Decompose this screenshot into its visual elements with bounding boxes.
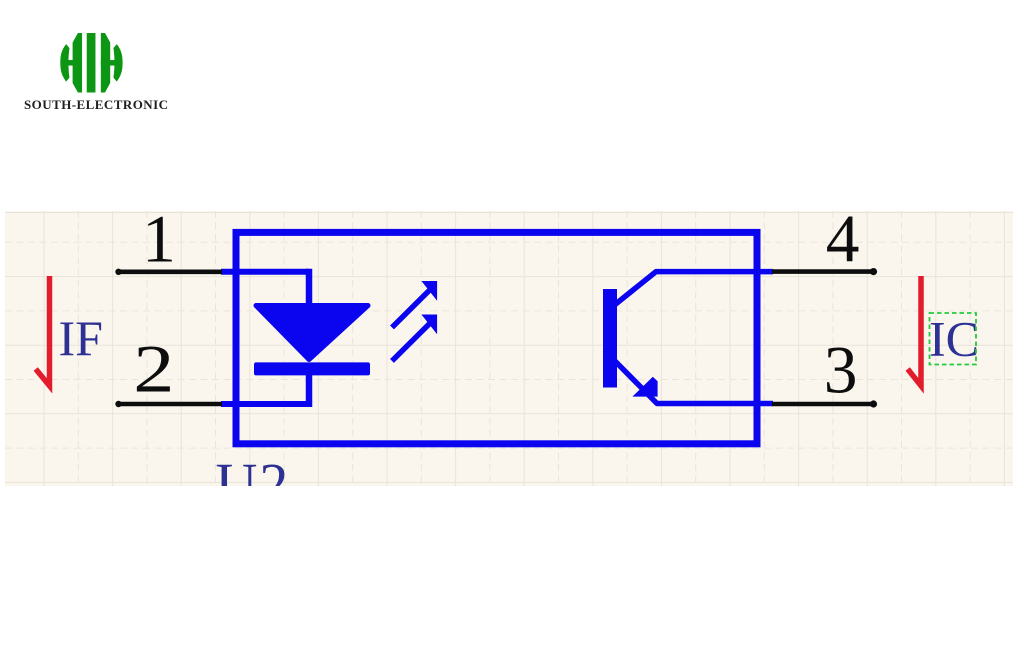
- LED D1 cathode bar: [254, 362, 370, 375]
- svg-text:IC: IC: [929, 311, 979, 367]
- logo left stripe: [73, 33, 82, 92]
- wire pin2 stub + cathode wire: [221, 373, 309, 407]
- logo left crossbar: [64, 60, 82, 65]
- svg-text:3: 3: [824, 333, 858, 408]
- wire pin 4: [772, 268, 877, 275]
- logo right crossbar: [101, 60, 119, 65]
- logo South-Electronic HH mark: [60, 33, 123, 93]
- LED D1 triangle: [256, 306, 368, 360]
- phototransistor collector wire to pin4: [612, 272, 773, 307]
- current arrow IC: [908, 276, 921, 386]
- LED light arrow lower: [392, 315, 437, 361]
- label IF: [59, 310, 103, 366]
- svg-text:4: 4: [826, 211, 860, 277]
- svg-text:U2: U2: [216, 451, 291, 486]
- phototransistor emitter arrowhead: [632, 377, 657, 397]
- sheet background: [5, 211, 1013, 486]
- optocoupler body U2: [236, 232, 757, 443]
- logo left crescent: [60, 44, 69, 81]
- pin number 1: [142, 202, 176, 277]
- brand text SOUTH-ELECTRONIC: [24, 97, 168, 113]
- label IC: [929, 311, 979, 367]
- svg-text:IF: IF: [59, 310, 103, 366]
- schematic sheet: [5, 211, 1013, 486]
- designator U2: [216, 451, 291, 516]
- LED light arrow upper: [392, 281, 437, 327]
- logo right crescent: [113, 44, 122, 81]
- logo center stripe: [87, 33, 96, 92]
- pin number 4: [826, 202, 860, 277]
- phototransistor emitter wire to pin3: [612, 358, 773, 404]
- wire pin1 stub + anode wire: [221, 269, 309, 305]
- wire pin 2: [115, 401, 222, 407]
- wire pin 1: [115, 269, 222, 275]
- current arrow IF: [36, 276, 50, 386]
- phototransistor Q1 base bar: [603, 289, 617, 388]
- selection box around IC: [930, 313, 977, 365]
- pin number 2: [133, 332, 174, 406]
- svg-text:1: 1: [142, 211, 176, 277]
- logo right stripe: [101, 33, 110, 92]
- svg-text:2: 2: [133, 332, 174, 406]
- wire pin 3: [772, 400, 877, 407]
- pin number 3: [824, 333, 858, 408]
